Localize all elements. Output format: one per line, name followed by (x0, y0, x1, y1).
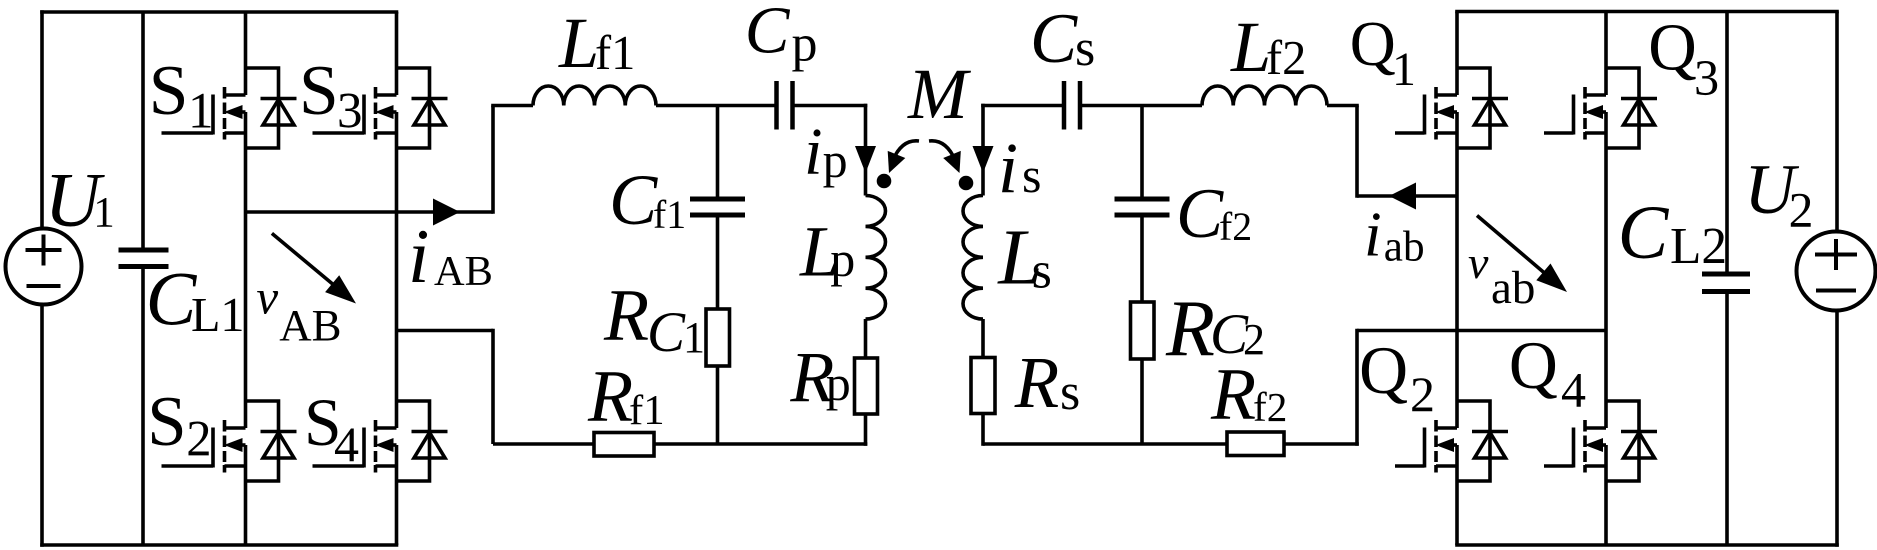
body diode of S2 triangle (263, 433, 294, 459)
transistor S2 drain stub (225, 426, 246, 430)
wire: S3/S4 leg lower segment (395, 445, 399, 545)
wire: Lf2 to right corner (1327, 104, 1359, 108)
wire: RC1 to bottom rail (716, 366, 720, 444)
transistor Q4 source stub (1585, 464, 1606, 468)
arrow iab (1389, 183, 1416, 210)
capacitor Cs left plate (1062, 81, 1067, 130)
body diode of S4 loop wire (397, 401, 430, 481)
svg-text:f1: f1 (653, 193, 686, 237)
transistor Q4 gate lead (1544, 464, 1574, 468)
transistor S1 gate bar (211, 95, 215, 135)
body diode of S2 loop wire (246, 401, 279, 481)
svg-text:s: s (1022, 147, 1041, 203)
svg-text:C: C (146, 258, 198, 342)
transistor Q2 drain stub (1436, 426, 1457, 430)
body diode of Q3 cathode bar (1621, 97, 1657, 101)
arrow vAB (272, 233, 344, 293)
transistor Q3 gate lead (1544, 131, 1574, 135)
transistor S3 channel (374, 87, 378, 99)
wire: Lp to Rp (864, 319, 868, 358)
body diode of S4 cathode bar (412, 430, 448, 434)
svg-text:f1: f1 (629, 387, 665, 434)
body diode of Q4 triangle (1624, 433, 1655, 459)
arrow is on wire (973, 146, 994, 173)
transistor Q3 source stub (1585, 131, 1606, 135)
transistor S4 body arrow (375, 438, 394, 452)
svg-text:L2: L2 (1670, 218, 1727, 275)
svg-text:AB: AB (434, 248, 493, 295)
transistor S2 body arrow (224, 438, 243, 452)
voltage source U2 plus sign (1815, 253, 1857, 257)
body diode of Q2 cathode bar (1472, 430, 1508, 434)
svg-text:C: C (647, 301, 686, 364)
svg-text:R: R (1014, 342, 1059, 423)
svg-text:v: v (1468, 237, 1489, 288)
svg-text:2: 2 (1789, 182, 1814, 237)
inductor Lf2 (1202, 86, 1327, 106)
svg-text:1: 1 (1392, 43, 1416, 96)
body diode of Q4 cathode bar (1621, 430, 1657, 434)
transistor Q2 gate bar (1423, 428, 1427, 468)
transistor Q1 source stub (1436, 131, 1457, 135)
svg-text:S: S (149, 51, 189, 130)
capacitor CL1 bottom plate (119, 264, 169, 269)
wire: Lp branch top (864, 104, 868, 196)
svg-text:v: v (256, 269, 278, 324)
body diode of S1 triangle (263, 100, 294, 126)
wire: right edge above U2 (1835, 12, 1839, 233)
svg-text:Q: Q (1648, 10, 1697, 85)
transistor Q3 drain stub (1585, 93, 1606, 97)
wire: node A output to LCC input (246, 210, 494, 214)
wire: riser to node b wire (1355, 329, 1359, 446)
capacitor Cf1 bottom plate (690, 213, 745, 218)
node: left DC bus bottom rail (40, 543, 398, 547)
transistor S2 gate bar (211, 428, 215, 468)
svg-text:Q: Q (1359, 333, 1408, 408)
wire: RC2 to bottom rail (1140, 359, 1144, 444)
transistor S3 gate bar (362, 95, 366, 135)
svg-text:i: i (408, 213, 429, 299)
capacitor CL2 bottom plate (1702, 289, 1750, 294)
body diode of S3 cathode bar (412, 97, 448, 101)
wire: Cp to Lp branch (795, 104, 868, 108)
wire: Q3/Q4 leg lower segment (1604, 445, 1608, 545)
svg-text:Q: Q (1509, 328, 1558, 403)
svg-text:ab: ab (1384, 224, 1425, 271)
transistor Q2 channel (1434, 420, 1438, 432)
body diode of Q1 loop wire (1457, 68, 1490, 148)
svg-text:s: s (1032, 242, 1052, 299)
transistor S1 channel (223, 87, 227, 99)
body diode of S1 loop wire (246, 68, 279, 148)
svg-text:C: C (1618, 191, 1670, 275)
svg-text:f2: f2 (1253, 384, 1287, 430)
wire: right edge below U2 (1835, 311, 1839, 547)
transistor S4 gate bar (362, 428, 366, 468)
transistor Q2 body arrow (1436, 438, 1455, 452)
transistor Q4 channel (1583, 420, 1587, 432)
svg-text:3: 3 (337, 83, 363, 139)
wire: left edge below U1 (40, 305, 44, 547)
transistor Q2 gate lead (1395, 464, 1425, 468)
svg-text:AB: AB (279, 300, 341, 350)
resistor Rp (855, 358, 878, 414)
transistor S1 gate lead (162, 131, 214, 135)
capacitor Cs right plate (1078, 81, 1083, 130)
wire: Q1/Q2 leg middle segment through node a (1455, 112, 1459, 428)
svg-text:p: p (830, 231, 855, 287)
wire: Q3/Q4 leg middle segment through node b (1604, 112, 1608, 428)
arrow iAB (433, 199, 460, 226)
wire: Ls branch top (981, 104, 985, 196)
inductor Ls coil (963, 196, 983, 320)
wire: Rp to bottom rail (864, 414, 868, 446)
transistor S4 source stub (376, 464, 397, 468)
transistor S1 source stub (225, 131, 246, 135)
body diode of S3 loop wire (397, 68, 430, 148)
transistor Q1 gate lead (1395, 131, 1425, 135)
dot: primary winding polarity mark (877, 174, 892, 189)
svg-text:2: 2 (1410, 366, 1435, 422)
transistor S1 body arrow (224, 105, 243, 119)
transistor Q3 body arrow (1585, 105, 1604, 119)
svg-text:R: R (1165, 285, 1215, 373)
body diode of Q2 triangle (1475, 433, 1506, 459)
wire: bottom rail Rf2 to right riser (1284, 442, 1359, 446)
wire: LCC1 input riser top (491, 106, 495, 214)
wire: Rs to bottom rail (981, 414, 985, 446)
capacitor Cf1 upper wire (716, 106, 720, 197)
wire: top rail Ls to Cs (981, 104, 1062, 108)
svg-text:S: S (147, 383, 186, 461)
transistor Q4 body arrow (1585, 438, 1604, 452)
transistor Q2 body stub (1451, 443, 1457, 447)
wire: LCC1 input riser bottom (491, 329, 495, 444)
wire: bottom rail Ls to Rf2 (983, 442, 1229, 446)
svg-text:1: 1 (93, 189, 115, 236)
wire: S1/S2 leg lower segment (244, 445, 248, 545)
svg-text:C: C (1030, 0, 1078, 78)
voltage source U1 circle (6, 229, 82, 305)
transistor S3 body stub (391, 110, 397, 114)
svg-text:L1: L1 (191, 289, 245, 342)
capacitor Cp left plate (774, 81, 779, 130)
transistor S3 gate lead (313, 131, 365, 135)
capacitor Cp right plate (790, 81, 795, 130)
voltage source U1 plus sign (26, 248, 62, 252)
transistor S1 body stub (240, 110, 246, 114)
svg-text:i: i (804, 115, 823, 189)
svg-text:i: i (998, 128, 1018, 208)
svg-text:p: p (823, 132, 848, 188)
svg-text:f2: f2 (1219, 205, 1252, 249)
transistor S2 channel (223, 420, 227, 432)
svg-text:C: C (609, 160, 658, 240)
transistor S4 drain stub (376, 426, 397, 430)
svg-text:C: C (1176, 175, 1224, 253)
transistor Q1 channel (1434, 87, 1438, 99)
arrow: mutual coupling left arc (893, 141, 919, 160)
wire: Q3/Q4 leg upper segment (1604, 12, 1608, 96)
transistor Q3 gate bar (1572, 95, 1576, 135)
transistor Q1 gate bar (1423, 95, 1427, 135)
arrow: mutual coupling right arc (929, 141, 955, 160)
transistor S2 source stub (225, 464, 246, 468)
wire: Q1/Q2 leg upper segment (1455, 12, 1459, 96)
svg-text:4: 4 (1561, 361, 1586, 417)
capacitor Cf2 lower wire (1140, 218, 1144, 303)
transistor S2 body stub (240, 443, 246, 447)
transistor Q3 body stub (1600, 110, 1606, 114)
wire: riser to node a wire (1355, 106, 1359, 198)
transistor S4 channel (374, 420, 378, 432)
inductor Lp coil (866, 196, 886, 320)
inductor Lf1 (533, 86, 656, 106)
resistor Rs (971, 358, 995, 414)
wire: S3/S4 leg middle segment through node B (395, 112, 399, 428)
wire: left edge above U1 (40, 10, 44, 229)
transistor Q3 channel (1583, 87, 1587, 99)
body diode of S4 triangle (414, 433, 445, 459)
svg-text:ab: ab (1491, 262, 1535, 314)
svg-text:M: M (907, 54, 971, 134)
svg-text:p: p (792, 15, 818, 72)
body diode of Q3 triangle (1624, 100, 1655, 126)
transistor Q4 body stub (1600, 443, 1606, 447)
arrow vab (1477, 216, 1548, 277)
svg-text:4: 4 (334, 416, 359, 472)
body diode of Q2 loop wire (1457, 401, 1490, 481)
body diode of Q4 loop wire (1606, 401, 1639, 481)
transistor Q2 source stub (1436, 464, 1457, 468)
node: right DC bus bottom rail (1455, 543, 1839, 547)
voltage source U1 minus sign (27, 284, 61, 288)
svg-text:p: p (826, 355, 851, 411)
transistor Q1 body stub (1451, 110, 1457, 114)
wire: node B output to LCC bottom (397, 329, 494, 333)
svg-text:C: C (745, 0, 791, 68)
body diode of Q3 loop wire (1606, 68, 1639, 148)
wire: S1/S2 leg middle segment through node A (244, 112, 248, 428)
capacitor CL1 lower wire (141, 269, 145, 545)
resistor RC1 (706, 309, 730, 366)
wire: S3/S4 leg upper segment (395, 12, 399, 95)
capacitor Cf1 top plate (690, 197, 745, 202)
transistor Q1 drain stub (1436, 93, 1457, 97)
wire: S1/S2 leg upper segment (244, 12, 248, 95)
svg-text:R: R (1210, 353, 1256, 435)
body diode of S2 cathode bar (261, 430, 297, 434)
capacitor CL2 lower wire (1725, 294, 1729, 545)
wire: Q1/Q2 leg lower segment (1455, 445, 1459, 545)
voltage source U2 minus sign (1816, 289, 1856, 293)
svg-text:1: 1 (683, 313, 705, 362)
capacitor CL2 upper wire (1725, 12, 1729, 272)
svg-text:R: R (587, 356, 633, 438)
capacitor Cf1 lower wire (716, 218, 720, 310)
transistor S4 body stub (391, 443, 397, 447)
body diode of Q1 triangle (1475, 100, 1506, 126)
wire: Lf1 to Cp (656, 104, 775, 108)
transistor S3 drain stub (376, 93, 397, 97)
wire: top rail into Lf1 (491, 104, 533, 108)
wire: node a wire into right bridge (1357, 194, 1457, 198)
wire: node b wire into right bridge (1357, 329, 1606, 333)
transistor Q4 gate bar (1572, 428, 1576, 468)
transistor S3 source stub (376, 131, 397, 135)
capacitor CL1 top plate (119, 248, 169, 253)
transistor S1 drain stub (225, 93, 246, 97)
svg-text:s: s (1075, 20, 1095, 77)
body diode of Q1 cathode bar (1472, 97, 1508, 101)
wire: Ls to Rs (981, 319, 985, 358)
voltage source U2 circle (1797, 232, 1876, 311)
svg-text:i: i (1364, 199, 1382, 270)
svg-text:f1: f1 (595, 27, 635, 80)
resistor Rf2 (1227, 432, 1284, 456)
svg-text:f2: f2 (1266, 32, 1306, 85)
svg-text:3: 3 (1694, 50, 1719, 106)
transistor S4 gate lead (313, 464, 365, 468)
capacitor CL1 upper wire (141, 12, 145, 248)
svg-text:1: 1 (188, 83, 214, 139)
svg-text:s: s (1060, 364, 1080, 421)
body diode of S3 triangle (414, 100, 445, 126)
arrow ip on wire (855, 146, 876, 173)
transistor Q1 body arrow (1436, 105, 1455, 119)
capacitor Cf2 upper wire (1140, 106, 1144, 197)
svg-text:L: L (558, 3, 599, 83)
capacitor Cf2 bottom plate (1115, 213, 1170, 218)
body diode of S1 cathode bar (261, 97, 297, 101)
svg-text:2: 2 (186, 411, 211, 467)
resistor RC2 (1131, 302, 1155, 359)
resistor Rf1 (594, 433, 654, 457)
svg-text:S: S (299, 51, 339, 130)
wire: Cs to Lf2 (1082, 104, 1202, 108)
transistor S3 body arrow (375, 105, 394, 119)
svg-text:Q: Q (1350, 8, 1396, 79)
wire: bottom rail left of Rf1 (493, 442, 596, 446)
svg-text:R: R (603, 274, 649, 356)
node: right DC bus top rail (1455, 10, 1839, 14)
transistor S2 gate lead (162, 464, 214, 468)
capacitor Cf2 top plate (1115, 197, 1170, 202)
transistor Q4 drain stub (1585, 426, 1606, 430)
wire: bottom rail Rf1 to Lp branch (654, 442, 867, 446)
capacitor CL2 top plate (1702, 272, 1750, 277)
dot: secondary winding polarity mark (959, 176, 974, 191)
node: left DC bus top rail (40, 10, 398, 14)
